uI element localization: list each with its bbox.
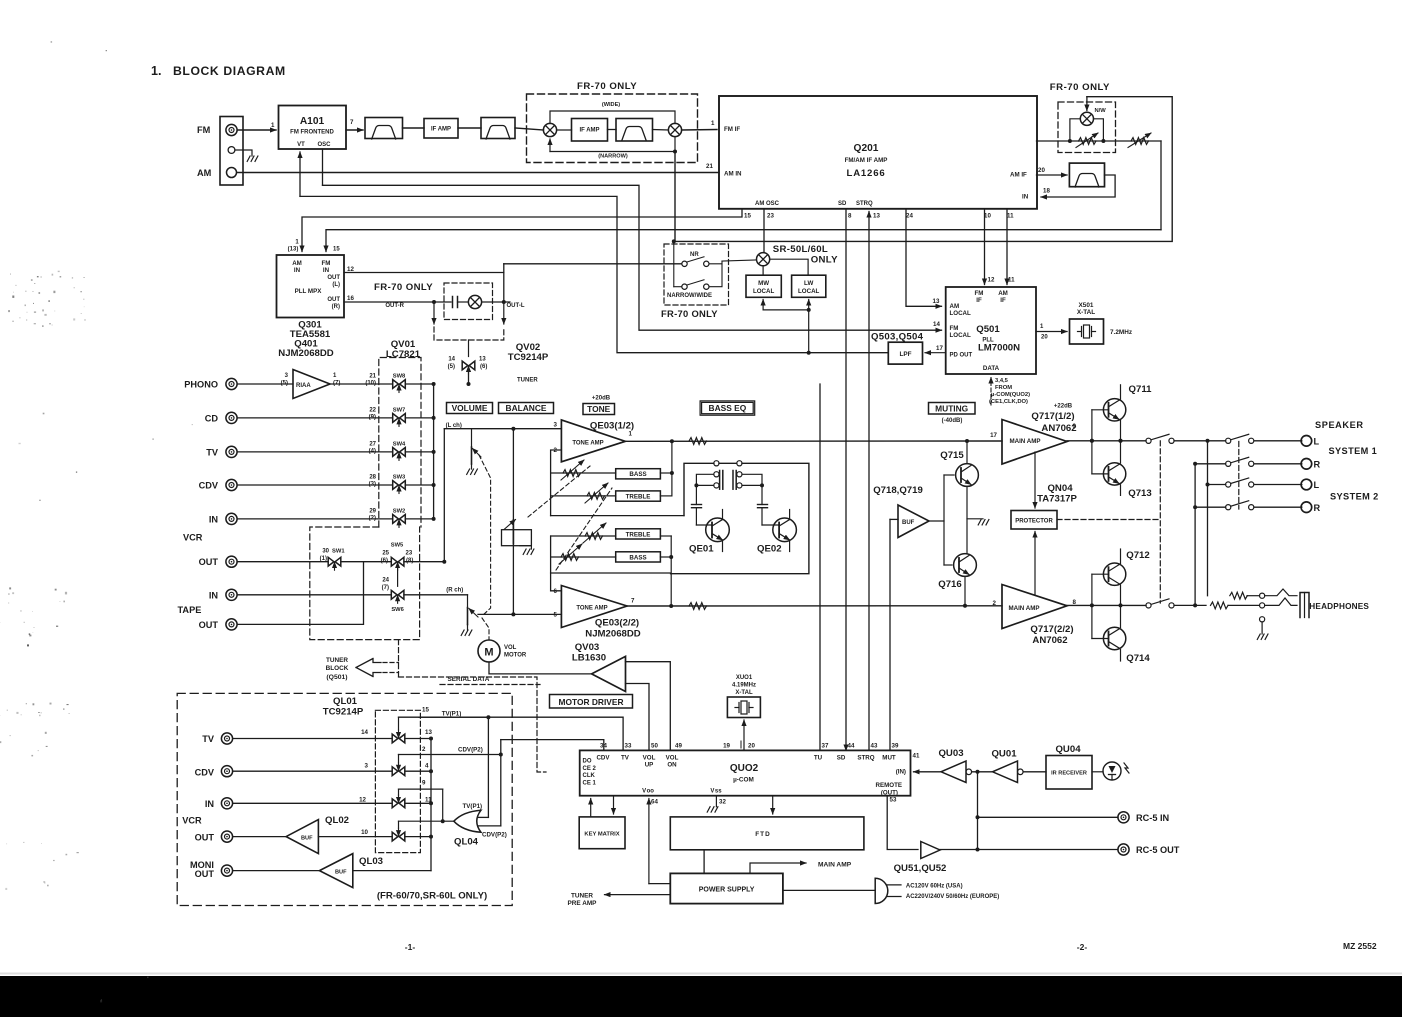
- svg-text:CLK: CLK: [583, 773, 596, 779]
- svg-text:24: 24: [382, 578, 389, 584]
- svg-text:CDV: CDV: [195, 768, 215, 778]
- svg-text:SW2: SW2: [393, 508, 406, 514]
- svg-text:R: R: [1314, 503, 1321, 513]
- svg-text:CE 1: CE 1: [583, 780, 597, 786]
- svg-text:(9): (9): [369, 414, 376, 420]
- svg-text:LOCAL: LOCAL: [950, 332, 972, 339]
- svg-text:13: 13: [933, 298, 940, 305]
- svg-text:SD: SD: [837, 755, 846, 762]
- svg-text:Q717(1/2): Q717(1/2): [1031, 411, 1074, 422]
- svg-text:+22dB: +22dB: [1054, 404, 1073, 410]
- svg-text:QL01: QL01: [333, 696, 358, 707]
- svg-text:FR-70 ONLY: FR-70 ONLY: [661, 308, 718, 319]
- svg-text:BASS: BASS: [629, 471, 646, 478]
- svg-text:(3): (3): [369, 482, 376, 488]
- svg-text:TC9214P: TC9214P: [508, 352, 549, 363]
- svg-text:QL04: QL04: [454, 837, 479, 848]
- svg-text:(6): (6): [480, 364, 487, 370]
- svg-text:AM: AM: [197, 168, 212, 178]
- svg-text:QE03(2/2): QE03(2/2): [595, 618, 639, 629]
- svg-text:QN04: QN04: [1047, 483, 1073, 494]
- svg-text:IN: IN: [1022, 194, 1029, 201]
- svg-text:14: 14: [361, 729, 368, 736]
- svg-text:FR-70 ONLY: FR-70 ONLY: [577, 81, 637, 92]
- svg-text:BLOCK: BLOCK: [326, 665, 349, 672]
- svg-text:SD: SD: [838, 201, 847, 207]
- svg-text:2: 2: [993, 600, 997, 607]
- svg-text:MOTOR: MOTOR: [504, 653, 527, 659]
- svg-text:LPF: LPF: [899, 351, 911, 358]
- svg-text:11: 11: [1007, 213, 1014, 220]
- svg-text:44: 44: [848, 743, 855, 750]
- svg-text:VT: VT: [297, 142, 305, 148]
- svg-text:SW7: SW7: [393, 407, 406, 413]
- svg-text:7: 7: [350, 119, 354, 126]
- svg-text:SYSTEM 1: SYSTEM 1: [1329, 446, 1378, 456]
- svg-text:23: 23: [406, 551, 413, 557]
- svg-text:(Q501): (Q501): [326, 674, 347, 681]
- svg-text:21: 21: [706, 163, 713, 170]
- svg-text:Q503,Q504: Q503,Q504: [871, 332, 924, 343]
- svg-text:3,4,5: 3,4,5: [995, 378, 1009, 384]
- svg-text:53: 53: [890, 797, 897, 804]
- svg-text:MUT: MUT: [882, 755, 896, 762]
- svg-text:AC220V/240V 50/60Hz (EUROPE): AC220V/240V 50/60Hz (EUROPE): [906, 894, 999, 900]
- svg-text:1: 1: [271, 122, 275, 129]
- svg-text:OSC: OSC: [317, 142, 331, 148]
- svg-text:AM: AM: [292, 260, 302, 267]
- svg-text:25: 25: [382, 551, 389, 557]
- svg-text:IR RECEIVER: IR RECEIVER: [1051, 771, 1087, 777]
- svg-text:10: 10: [361, 829, 368, 836]
- svg-text:SW1: SW1: [332, 549, 345, 555]
- svg-text:LOCAL: LOCAL: [798, 288, 820, 295]
- svg-text:TV(P1): TV(P1): [442, 711, 462, 718]
- svg-text:IF AMP: IF AMP: [431, 127, 451, 133]
- svg-text:3: 3: [554, 422, 558, 429]
- svg-text:(R): (R): [332, 304, 340, 310]
- svg-text:2: 2: [422, 746, 426, 753]
- svg-text:FM FRONTEND: FM FRONTEND: [290, 130, 334, 136]
- svg-text:BUF: BUF: [301, 836, 313, 842]
- svg-text:LOCAL: LOCAL: [753, 288, 775, 295]
- svg-text:TA7317P: TA7317P: [1037, 494, 1077, 505]
- svg-text:VOL: VOL: [643, 755, 656, 762]
- svg-text:9: 9: [422, 780, 426, 787]
- svg-text:FR-70 ONLY: FR-70 ONLY: [374, 282, 433, 293]
- svg-text:FM/AM IF AMP: FM/AM IF AMP: [845, 157, 888, 164]
- svg-text:µ-COM(QUO2): µ-COM(QUO2): [991, 392, 1030, 398]
- svg-text:21: 21: [369, 374, 376, 380]
- svg-text:Q201: Q201: [854, 143, 879, 154]
- svg-text:23: 23: [767, 213, 774, 220]
- svg-text:17: 17: [990, 432, 997, 439]
- svg-text:13: 13: [425, 729, 432, 736]
- svg-text:N/W: N/W: [1095, 108, 1107, 114]
- svg-text:IN: IN: [209, 590, 219, 600]
- svg-text:SW8: SW8: [393, 374, 406, 380]
- svg-text:QUO2: QUO2: [730, 763, 759, 774]
- svg-text:LA1266: LA1266: [847, 168, 886, 179]
- svg-text:(5): (5): [448, 364, 455, 370]
- svg-text:4.19MHz: 4.19MHz: [732, 683, 756, 689]
- svg-text:IN: IN: [294, 267, 301, 274]
- svg-text:(4): (4): [369, 448, 376, 454]
- svg-text:1: 1: [711, 120, 715, 127]
- svg-text:AN7062: AN7062: [1041, 423, 1076, 434]
- svg-text:CD: CD: [205, 413, 219, 423]
- svg-text:TC9214P: TC9214P: [323, 707, 364, 718]
- svg-text:18: 18: [1043, 188, 1050, 195]
- svg-text:19: 19: [723, 743, 730, 750]
- svg-text:20: 20: [1041, 335, 1048, 341]
- svg-text:QE03(1/2): QE03(1/2): [590, 421, 634, 432]
- svg-text:-2-: -2-: [1077, 942, 1088, 952]
- svg-text:(L ch): (L ch): [446, 423, 462, 429]
- svg-text:Q717(2/2): Q717(2/2): [1030, 624, 1073, 635]
- svg-text:(8): (8): [406, 558, 413, 564]
- svg-text:16: 16: [347, 295, 354, 302]
- svg-text:X-TAL: X-TAL: [735, 690, 753, 696]
- svg-text:15: 15: [422, 707, 429, 714]
- svg-text:(CE1,CLK,DO): (CE1,CLK,DO): [989, 399, 1028, 405]
- svg-text:SERIAL DATA: SERIAL DATA: [448, 676, 490, 683]
- svg-text:(6): (6): [381, 558, 388, 564]
- svg-text:Q501: Q501: [976, 324, 1000, 335]
- svg-text:MOTOR DRIVER: MOTOR DRIVER: [559, 697, 624, 707]
- svg-text:OUT-L: OUT-L: [507, 303, 525, 309]
- svg-text:LC7821: LC7821: [386, 349, 421, 360]
- svg-text:TONE AMP: TONE AMP: [576, 606, 607, 612]
- svg-text:FTD: FTD: [755, 831, 770, 838]
- svg-text:VOL: VOL: [666, 755, 679, 762]
- svg-text:IN: IN: [323, 267, 330, 274]
- svg-text:1: 1: [629, 431, 633, 438]
- svg-text:Q713: Q713: [1128, 488, 1151, 499]
- svg-text:QV03: QV03: [575, 642, 600, 653]
- svg-text:(7): (7): [382, 585, 389, 591]
- svg-text:POWER SUPPLY: POWER SUPPLY: [699, 887, 755, 894]
- svg-text:VCR: VCR: [183, 533, 203, 543]
- svg-text:VOLUME: VOLUME: [452, 403, 488, 413]
- svg-text:22: 22: [369, 407, 376, 413]
- svg-text:QU04: QU04: [1055, 744, 1081, 755]
- svg-text:15: 15: [333, 247, 340, 253]
- svg-text:11: 11: [1008, 277, 1015, 284]
- svg-text:(13): (13): [288, 247, 299, 253]
- svg-text:49: 49: [675, 743, 682, 750]
- svg-text:PRE AMP: PRE AMP: [568, 900, 598, 907]
- svg-text:QL03: QL03: [359, 856, 383, 867]
- svg-text:39: 39: [892, 743, 899, 750]
- svg-text:(2): (2): [369, 515, 376, 521]
- svg-text:AM: AM: [998, 290, 1008, 297]
- svg-text:FM: FM: [950, 325, 959, 332]
- svg-text:OUT: OUT: [195, 833, 215, 843]
- svg-text:TUNER: TUNER: [326, 657, 348, 664]
- svg-text:AM IN: AM IN: [724, 171, 742, 178]
- svg-text:TONE: TONE: [587, 404, 611, 414]
- svg-text:QE02: QE02: [757, 544, 782, 555]
- svg-text:QE01: QE01: [689, 544, 714, 555]
- svg-text:Q716: Q716: [938, 579, 961, 590]
- svg-text:DO: DO: [583, 759, 592, 765]
- svg-text:FM: FM: [975, 290, 984, 297]
- svg-text:Q718,Q719: Q718,Q719: [873, 485, 923, 496]
- svg-text:V oo: V oo: [642, 789, 654, 795]
- svg-text:CDV(P2): CDV(P2): [482, 832, 507, 839]
- svg-text:XUO1: XUO1: [736, 675, 753, 681]
- svg-text:MZ 2552: MZ 2552: [1343, 941, 1377, 951]
- svg-text:QU51,QU52: QU51,QU52: [894, 863, 947, 874]
- svg-text:FM: FM: [197, 125, 211, 135]
- svg-text:BUF: BUF: [902, 520, 915, 526]
- svg-text:+20dB: +20dB: [592, 396, 611, 402]
- svg-text:FM IF: FM IF: [724, 126, 740, 133]
- svg-text:IN: IN: [209, 514, 219, 524]
- svg-text:BLOCK DIAGRAM: BLOCK DIAGRAM: [173, 64, 286, 78]
- svg-text:OUT: OUT: [195, 869, 215, 879]
- svg-text:(L): (L): [332, 282, 340, 288]
- svg-text:15: 15: [744, 213, 751, 220]
- svg-text:14: 14: [448, 357, 455, 363]
- svg-text:(NARROW): (NARROW): [598, 154, 628, 160]
- svg-text:PROTECTOR: PROTECTOR: [1015, 519, 1053, 525]
- svg-text:28: 28: [369, 475, 376, 481]
- svg-text:13: 13: [479, 357, 486, 363]
- svg-text:TREBLE: TREBLE: [626, 531, 651, 538]
- svg-text:MAIN AMP: MAIN AMP: [1008, 605, 1039, 612]
- svg-text:FM: FM: [322, 260, 331, 267]
- svg-text:M: M: [484, 647, 493, 659]
- svg-text:A101: A101: [300, 116, 325, 127]
- svg-text:(OUT): (OUT): [881, 789, 898, 796]
- svg-text:(FR-60/70,SR-60L ONLY): (FR-60/70,SR-60L ONLY): [377, 891, 487, 902]
- svg-text:LM7000N: LM7000N: [978, 343, 1020, 354]
- svg-text:AC120V 60Hz (USA): AC120V 60Hz (USA): [906, 883, 963, 889]
- svg-text:SPEAKER: SPEAKER: [1315, 420, 1364, 430]
- svg-text:Q714: Q714: [1126, 653, 1150, 664]
- svg-text:AM IF: AM IF: [1010, 172, 1027, 179]
- svg-text:8: 8: [848, 213, 852, 220]
- svg-text:43: 43: [871, 743, 878, 750]
- svg-text:KEY MATRIX: KEY MATRIX: [584, 832, 619, 838]
- svg-text:4: 4: [425, 763, 429, 770]
- svg-text:TUNER: TUNER: [517, 378, 538, 384]
- svg-text:VOL: VOL: [504, 645, 517, 651]
- svg-text:TV: TV: [621, 755, 630, 762]
- svg-text:RC-5 IN: RC-5 IN: [1136, 813, 1170, 823]
- svg-text:QU03: QU03: [938, 748, 963, 759]
- svg-text:SW3: SW3: [393, 475, 406, 481]
- svg-text:(R ch): (R ch): [446, 588, 463, 594]
- svg-text:IF: IF: [976, 297, 982, 304]
- svg-text:HEADPHONES: HEADPHONES: [1309, 602, 1369, 611]
- svg-text:NR: NR: [690, 252, 699, 258]
- svg-text:X501: X501: [1079, 302, 1094, 309]
- svg-text:UP: UP: [645, 762, 654, 769]
- svg-text:RC-5 OUT: RC-5 OUT: [1136, 845, 1180, 855]
- svg-text:27: 27: [369, 441, 376, 447]
- svg-text:(IN): (IN): [896, 769, 906, 776]
- svg-text:64: 64: [651, 799, 658, 806]
- svg-text:AN7062: AN7062: [1032, 635, 1067, 646]
- svg-text:STRQ: STRQ: [857, 755, 874, 762]
- svg-text:7.2MHz: 7.2MHz: [1110, 329, 1132, 336]
- svg-text:3: 3: [365, 763, 369, 770]
- svg-text:STRQ: STRQ: [856, 201, 873, 207]
- svg-text:DATA: DATA: [983, 365, 1000, 372]
- svg-text:SW5: SW5: [391, 543, 404, 549]
- svg-text:FROM: FROM: [995, 385, 1012, 391]
- svg-text:TONE AMP: TONE AMP: [572, 441, 603, 447]
- svg-text:NARROW/WIDE: NARROW/WIDE: [667, 293, 712, 299]
- svg-text:NJM2068DD: NJM2068DD: [278, 348, 334, 359]
- svg-text:Q712: Q712: [1126, 550, 1149, 561]
- svg-text:12: 12: [359, 797, 366, 804]
- svg-text:BUF: BUF: [335, 870, 347, 876]
- svg-text:VCR: VCR: [182, 816, 202, 826]
- svg-text:20: 20: [1038, 167, 1045, 174]
- svg-text:(10): (10): [365, 381, 376, 387]
- svg-text:CDV(P2): CDV(P2): [458, 747, 483, 754]
- svg-text:-1-: -1-: [405, 942, 416, 952]
- svg-text:29: 29: [369, 508, 376, 514]
- svg-text:SW6: SW6: [391, 607, 404, 613]
- svg-text:MW: MW: [758, 280, 769, 287]
- svg-text:NJM2068DD: NJM2068DD: [585, 629, 641, 640]
- svg-text:37: 37: [822, 743, 829, 750]
- svg-text:14: 14: [933, 321, 940, 328]
- svg-text:AM OSC: AM OSC: [755, 201, 780, 207]
- svg-text:MAIN AMP: MAIN AMP: [818, 862, 852, 869]
- svg-text:TAPE: TAPE: [178, 605, 202, 615]
- svg-text:6: 6: [554, 588, 558, 595]
- svg-text:TV: TV: [202, 734, 215, 744]
- svg-text:13: 13: [873, 213, 880, 220]
- svg-text:TREBLE: TREBLE: [626, 493, 651, 500]
- svg-text:30: 30: [322, 549, 329, 555]
- svg-text:OUT: OUT: [199, 557, 219, 567]
- svg-text:V ss: V ss: [710, 789, 722, 795]
- svg-text:41: 41: [913, 753, 920, 760]
- svg-text:R: R: [1314, 460, 1321, 470]
- svg-text:IN: IN: [205, 799, 215, 809]
- svg-text:LOCAL: LOCAL: [950, 310, 972, 317]
- svg-text:BALANCE: BALANCE: [506, 403, 547, 413]
- svg-text:BASS EQ: BASS EQ: [709, 403, 747, 413]
- svg-text:QU01: QU01: [991, 749, 1017, 760]
- svg-text:TV: TV: [206, 447, 219, 457]
- svg-text:SYSTEM 2: SYSTEM 2: [1330, 492, 1379, 502]
- svg-text:TU: TU: [814, 755, 823, 762]
- svg-text:(WIDE): (WIDE): [602, 102, 620, 108]
- svg-text:RIAA: RIAA: [296, 383, 311, 389]
- svg-text:FR-70 ONLY: FR-70 ONLY: [1050, 82, 1110, 93]
- svg-text:(-40dB): (-40dB): [942, 418, 963, 424]
- svg-text:IF: IF: [1000, 297, 1006, 304]
- svg-text:33: 33: [625, 743, 632, 750]
- svg-text:SW4: SW4: [393, 441, 406, 447]
- svg-text:Q711: Q711: [1129, 384, 1153, 395]
- svg-text:ONLY: ONLY: [811, 255, 838, 266]
- svg-text:CDV: CDV: [596, 755, 610, 762]
- svg-text:ON: ON: [667, 762, 677, 769]
- svg-text:TV(P1): TV(P1): [463, 803, 483, 810]
- svg-text:1.: 1.: [151, 64, 161, 78]
- svg-text:MAIN AMP: MAIN AMP: [1009, 438, 1040, 445]
- svg-text:LW: LW: [804, 280, 813, 287]
- svg-text:Q715: Q715: [940, 450, 964, 461]
- svg-text:7: 7: [631, 598, 635, 605]
- svg-text:X-TAL: X-TAL: [1077, 309, 1095, 316]
- svg-text:IF AMP: IF AMP: [579, 128, 599, 134]
- svg-text:BASS: BASS: [629, 554, 646, 561]
- svg-text:MUTING: MUTING: [935, 404, 968, 414]
- svg-text:SR-50L/60L: SR-50L/60L: [773, 244, 828, 255]
- svg-text:LB1630: LB1630: [572, 653, 606, 664]
- svg-text:L: L: [1314, 437, 1320, 447]
- svg-text:50: 50: [651, 743, 658, 750]
- svg-text:QL02: QL02: [325, 815, 349, 826]
- svg-text:µ-COM: µ-COM: [733, 777, 754, 784]
- svg-text:REMOTE: REMOTE: [876, 782, 902, 789]
- svg-text:PHONO: PHONO: [184, 380, 218, 390]
- svg-text:OUT: OUT: [327, 297, 340, 303]
- svg-text:OUT: OUT: [327, 275, 340, 281]
- svg-text:(5): (5): [281, 381, 288, 387]
- svg-text:9: 9: [1073, 423, 1077, 430]
- svg-text:PLL MPX: PLL MPX: [295, 288, 323, 295]
- svg-text:TUNER: TUNER: [571, 893, 593, 900]
- svg-text:OUT-R: OUT-R: [385, 303, 404, 309]
- svg-text:L: L: [1314, 480, 1320, 490]
- svg-text:CE 2: CE 2: [583, 766, 597, 772]
- svg-text:32: 32: [719, 799, 726, 806]
- svg-text:PD OUT: PD OUT: [950, 353, 973, 359]
- svg-text:20: 20: [748, 743, 755, 750]
- svg-text:AM: AM: [950, 303, 960, 310]
- svg-text:24: 24: [906, 213, 913, 220]
- svg-text:(1): (1): [320, 556, 327, 562]
- svg-text:17: 17: [936, 345, 943, 352]
- svg-text:CDV: CDV: [199, 481, 219, 491]
- svg-text:OUT: OUT: [199, 620, 219, 630]
- svg-text:12: 12: [988, 277, 995, 284]
